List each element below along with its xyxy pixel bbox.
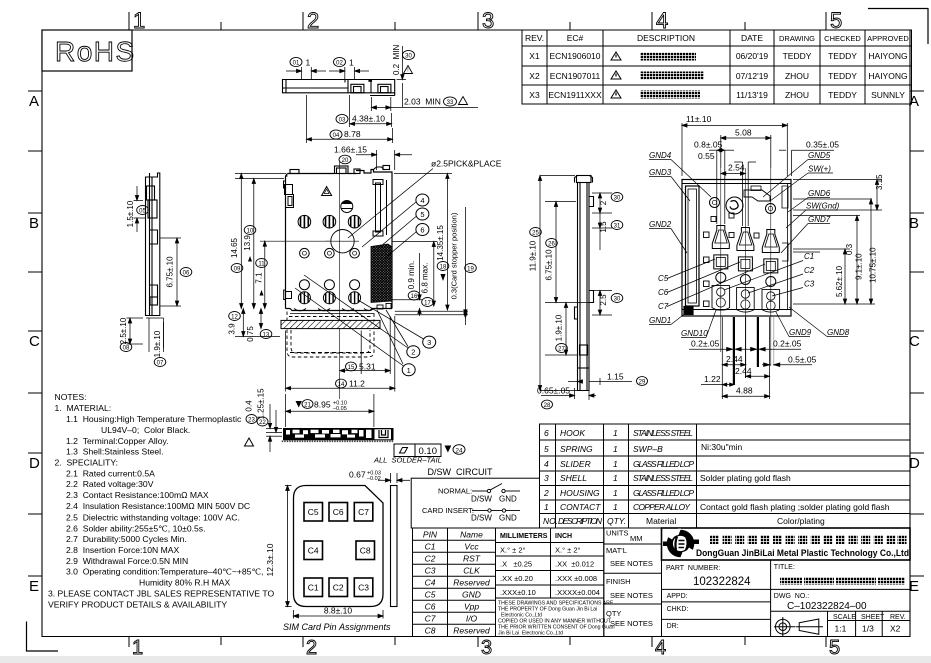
svg-text:13.9: 13.9 xyxy=(243,235,252,251)
svg-text:TEDDY: TEDDY xyxy=(783,51,812,61)
svg-text:3. PLEASE CONTACT JBL SALES RE: 3. PLEASE CONTACT JBL SALES REPRESENTATI… xyxy=(48,589,275,599)
svg-text:B: B xyxy=(29,215,39,232)
svg-text:RoHS: RoHS xyxy=(55,36,136,67)
svg-text:DR:: DR: xyxy=(667,623,679,630)
svg-text:C3: C3 xyxy=(358,583,369,593)
svg-text:E: E xyxy=(909,578,919,595)
svg-text:Reserved: Reserved xyxy=(453,578,490,588)
svg-text:TITLE:: TITLE: xyxy=(774,564,795,571)
svg-text:Vcc: Vcc xyxy=(464,542,479,552)
svg-text:ALL SOLDER–TAIL: ALL SOLDER–TAIL xyxy=(373,456,442,465)
parts list table xyxy=(540,424,911,528)
PIN assignment table xyxy=(413,528,496,637)
svg-text:EC#: EC# xyxy=(567,33,584,43)
svg-text:C1: C1 xyxy=(425,542,436,552)
svg-text:Material: Material xyxy=(646,516,676,526)
svg-text:Vpp: Vpp xyxy=(464,602,479,612)
zone letters right xyxy=(909,93,920,595)
its dims: left chain xyxy=(538,176,590,391)
svg-text:4: 4 xyxy=(420,196,424,205)
svg-text:2: 2 xyxy=(599,200,608,205)
svg-text:11.9±.10: 11.9±.10 xyxy=(529,240,538,271)
svg-text:DATE: DATE xyxy=(741,33,763,43)
svg-text:29: 29 xyxy=(639,380,646,386)
svg-text:C4: C4 xyxy=(425,578,436,588)
dim 0.2 MIN vertical xyxy=(397,46,407,107)
svg-text:02: 02 xyxy=(336,61,343,67)
svg-text:30: 30 xyxy=(405,54,412,60)
svg-text:X2: X2 xyxy=(529,71,540,81)
svg-text:SEE NOTES: SEE NOTES xyxy=(610,559,653,568)
contact row 2 (open circles) xyxy=(300,248,360,258)
SIM dims xyxy=(285,486,383,619)
svg-text:33: 33 xyxy=(447,100,454,106)
svg-text:GND6: GND6 xyxy=(808,189,831,198)
svg-text:5: 5 xyxy=(830,8,842,33)
svg-text:1: 1 xyxy=(407,366,411,375)
svg-text:.XXXX±0.004: .XXXX±0.004 xyxy=(555,588,600,597)
dim (03) 4.38 xyxy=(350,95,392,127)
svg-text:2.5±.10: 2.5±.10 xyxy=(119,317,128,344)
svg-text:GLASS FILLED LCP: GLASS FILLED LCP xyxy=(633,459,694,469)
svg-text:GND1: GND1 xyxy=(649,316,671,325)
svg-text:19: 19 xyxy=(467,267,474,273)
svg-text:14.65: 14.65 xyxy=(230,237,239,258)
top dims of bottom view xyxy=(682,123,834,226)
svg-text:GND: GND xyxy=(499,514,517,523)
svg-text:Solder plating gold flash: Solder plating gold flash xyxy=(700,473,791,483)
svg-text:5.31: 5.31 xyxy=(359,361,376,371)
svg-text:TEDDY: TEDDY xyxy=(828,51,857,61)
svg-text:0.65±.05: 0.65±.05 xyxy=(537,386,570,396)
svg-text:SW(+): SW(+) xyxy=(808,165,831,174)
svg-text:2.44: 2.44 xyxy=(726,354,743,364)
svg-text:QTY: QTY xyxy=(606,609,621,618)
svg-text:10.75±.10: 10.75±.10 xyxy=(869,247,878,283)
svg-text:1: 1 xyxy=(613,428,618,438)
svg-text:23: 23 xyxy=(248,418,255,424)
svg-text:25: 25 xyxy=(532,231,539,237)
svg-text:HAIYONG: HAIYONG xyxy=(868,71,907,81)
svg-text:1. MATERIAL:: 1. MATERIAL: xyxy=(55,403,112,413)
svg-text:0.2±.05: 0.2±.05 xyxy=(773,339,802,349)
svg-text:ECN1906010: ECN1906010 xyxy=(549,51,600,61)
svg-text:C3: C3 xyxy=(425,566,436,576)
svg-text:21: 21 xyxy=(304,403,311,409)
svg-text:PIN: PIN xyxy=(423,530,438,540)
svg-text:STAINLESS STEEL: STAINLESS STEEL xyxy=(633,428,693,438)
right slot xyxy=(373,180,387,237)
warning triangle in view xyxy=(322,187,332,196)
scattered small squares xyxy=(704,213,760,307)
chinese company name blocks xyxy=(710,535,907,544)
svg-text:5: 5 xyxy=(829,637,840,659)
svg-text:APPROVED: APPROVED xyxy=(867,34,909,43)
svg-text:0.67: 0.67 xyxy=(349,470,366,480)
balloons 1 2 3 with leaders xyxy=(402,364,415,376)
left labels xyxy=(649,151,708,338)
svg-text:PART NUMBER:: PART NUMBER: xyxy=(666,565,720,572)
svg-text:CHKD:: CHKD: xyxy=(667,606,689,613)
svg-text:1.25±.15: 1.25±.15 xyxy=(257,388,266,420)
svg-text:9.1±.10: 9.1±.10 xyxy=(855,253,864,280)
svg-text:CARD INSERT:: CARD INSERT: xyxy=(422,506,474,515)
svg-text:11/13'19: 11/13'19 xyxy=(736,90,768,100)
svg-text:–0.05: –0.05 xyxy=(333,406,347,412)
svg-text:Humidity 80% R.H MAX: Humidity 80% R.H MAX xyxy=(139,578,230,588)
svg-text:DWG NO.:: DWG NO.: xyxy=(774,593,809,600)
svg-text:1.66±.15: 1.66±.15 xyxy=(334,145,367,155)
zone ticks bottom xyxy=(129,637,826,648)
svg-text:CHECKED: CHECKED xyxy=(824,34,861,43)
svg-text:1.15: 1.15 xyxy=(607,372,624,382)
svg-text:0.3: 0.3 xyxy=(845,243,854,255)
svg-text:2.6 Solder ability:255±5℃, 10: 2.6 Solder ability:255±5℃, 10±0.5s. xyxy=(66,523,205,533)
svg-text:0.2±.05: 0.2±.05 xyxy=(691,339,720,349)
svg-text:SUNNLY: SUNNLY xyxy=(871,90,905,100)
svg-text:3: 3 xyxy=(544,473,549,483)
pick place circle xyxy=(326,230,359,253)
svg-text:A: A xyxy=(909,93,919,110)
svg-text:16: 16 xyxy=(411,294,418,300)
svg-text:Reserved: Reserved xyxy=(453,626,490,636)
svg-text:0.55: 0.55 xyxy=(698,151,715,161)
svg-text:.X ±0.25: .X ±0.25 xyxy=(500,560,532,569)
svg-text:2: 2 xyxy=(306,637,317,659)
svg-text:GND8: GND8 xyxy=(827,328,850,337)
bottom solder tails xyxy=(290,309,374,314)
zone numbers bottom xyxy=(132,637,840,659)
units/matl/finish/qty column xyxy=(604,528,662,637)
svg-text:27: 27 xyxy=(558,347,565,353)
svg-text:2.1 Rated current:0.5A: 2.1 Rated current:0.5A xyxy=(66,468,155,478)
svg-text:D: D xyxy=(909,455,920,472)
svg-text:GND3: GND3 xyxy=(649,168,672,177)
left dim chain of top view xyxy=(235,174,330,337)
svg-text:C6: C6 xyxy=(333,507,344,517)
contact rows 3/4 xyxy=(298,280,360,304)
single contact top middle xyxy=(341,201,353,213)
svg-text:3: 3 xyxy=(481,637,492,659)
switch symbol CARD INSERT closed xyxy=(472,509,520,512)
svg-text:5.62±.10: 5.62±.10 xyxy=(835,265,844,297)
svg-text:CLK: CLK xyxy=(463,566,480,576)
svg-text:Jin Bi Lai Electronic Co.,Ltd: Jin Bi Lai Electronic Co.,Ltd xyxy=(498,631,563,637)
svg-text:GLASS FILLED LCP: GLASS FILLED LCP xyxy=(633,488,694,498)
svg-text:–0.02: –0.02 xyxy=(367,476,381,482)
svg-text:TEDDY: TEDDY xyxy=(828,90,857,100)
svg-text:31: 31 xyxy=(614,224,621,230)
SIM card outline xyxy=(294,486,384,607)
company logo xyxy=(663,529,699,559)
svg-text:INCH: INCH xyxy=(555,533,572,540)
svg-text:07: 07 xyxy=(157,361,164,367)
svg-text:07/12'19: 07/12'19 xyxy=(736,71,769,81)
zone letters left xyxy=(29,93,40,595)
svg-text:1/3: 1/3 xyxy=(862,624,874,634)
svg-text:2.5 Dielectric withstanding v: 2.5 Dielectric withstanding voltage: 100… xyxy=(66,512,240,522)
svg-text:5: 5 xyxy=(420,210,424,219)
svg-text:22: 22 xyxy=(259,420,266,426)
svg-text:ZHOU: ZHOU xyxy=(785,71,809,81)
svg-text:C2: C2 xyxy=(333,583,344,593)
svg-text:11±.10: 11±.10 xyxy=(686,114,712,124)
RoHS logo box xyxy=(42,30,136,71)
top pick tab xyxy=(290,166,390,174)
svg-text:3.15: 3.15 xyxy=(875,174,884,190)
svg-text:DongGuan JinBiLai Metal Plasti: DongGuan JinBiLai Metal Plastic Technolo… xyxy=(696,548,909,559)
svg-text:18: 18 xyxy=(440,265,447,271)
svg-text:13: 13 xyxy=(263,333,270,339)
flatness callout xyxy=(394,444,441,457)
zone ticks top xyxy=(129,12,826,30)
contact row 1 (hatched circles) xyxy=(298,215,361,228)
svg-text:1.1 Housing:High Temperature: 1.1 Housing:High Temperature Thermoplast… xyxy=(66,414,242,424)
svg-text:ECN1907011: ECN1907011 xyxy=(550,71,601,81)
svg-text:.XX ±0.20: .XX ±0.20 xyxy=(500,574,533,583)
svg-text:1: 1 xyxy=(613,459,618,469)
svg-text:TEDDY: TEDDY xyxy=(828,71,857,81)
dim (02) 1 xyxy=(329,67,369,79)
svg-text:30: 30 xyxy=(614,196,621,202)
svg-text:2.2 Rated voltage:30V: 2.2 Rated voltage:30V xyxy=(66,479,154,489)
bottom dims xyxy=(689,317,812,399)
svg-text:ZHOU: ZHOU xyxy=(785,90,809,100)
svg-text:CONTACT: CONTACT xyxy=(560,502,601,512)
svg-text:SLIDER: SLIDER xyxy=(560,459,591,469)
svg-text:C–102322824–00: C–102322824–00 xyxy=(787,601,867,612)
svg-text:NORMAL:: NORMAL: xyxy=(438,487,472,496)
bottom dims 5.31 / 11.2 xyxy=(286,316,395,392)
svg-text:2: 2 xyxy=(411,348,415,357)
svg-text:5: 5 xyxy=(544,444,549,454)
svg-text:C5: C5 xyxy=(308,507,319,517)
small bottom-right features xyxy=(377,304,391,310)
svg-text:A: A xyxy=(29,93,39,110)
bottom view outline xyxy=(682,180,791,317)
svg-text:Contact gold flash plating ;so: Contact gold flash plating ;solder plati… xyxy=(700,502,890,512)
svg-text:DRAWING: DRAWING xyxy=(779,34,815,43)
svg-text:24: 24 xyxy=(455,447,463,454)
svg-text:RST: RST xyxy=(463,554,481,564)
hatched contact zone xyxy=(371,244,392,303)
svg-text:.XXX±0.10: .XXX±0.10 xyxy=(500,588,536,597)
svg-text:UNITS: UNITS xyxy=(606,529,629,538)
svg-text:1: 1 xyxy=(613,473,618,483)
left edge features xyxy=(284,181,294,300)
switch symbol NORMAL open xyxy=(472,484,520,493)
svg-text:3: 3 xyxy=(482,8,494,33)
svg-text:MM: MM xyxy=(630,534,643,543)
svg-text:2.7 Durability:5000 Cycles Mi: 2.7 Durability:5000 Cycles Min. xyxy=(66,534,187,544)
svg-text:4.38±.10: 4.38±.10 xyxy=(352,114,385,124)
svg-text:0.3(Card stopper position): 0.3(Card stopper position) xyxy=(450,212,459,299)
svg-text:2.3 Contact Resistance:100mΩ: 2.3 Contact Resistance:100mΩ MAX xyxy=(66,490,209,500)
svg-text:14.35±.15: 14.35±.15 xyxy=(436,225,445,261)
svg-text:STAINLESS STEEL: STAINLESS STEEL xyxy=(633,473,693,483)
svg-text:GND2: GND2 xyxy=(649,220,672,229)
svg-text:C7: C7 xyxy=(358,507,369,517)
column centerlines xyxy=(721,168,771,378)
svg-text:D/SW: D/SW xyxy=(471,495,492,504)
svg-text:1.5: 1.5 xyxy=(599,221,608,233)
svg-text:12: 12 xyxy=(231,315,238,321)
svg-text:01: 01 xyxy=(293,61,300,67)
svg-text:FINISH: FINISH xyxy=(606,577,631,586)
svg-text:SEE NOTES: SEE NOTES xyxy=(610,619,653,628)
svg-text:UL94V–0; Color Black.: UL94V–0; Color Black. xyxy=(101,425,190,435)
svg-text:2.9 Withdrawal Force:0.5N MIN: 2.9 Withdrawal Force:0.5N MIN xyxy=(66,556,188,566)
svg-text:2.44: 2.44 xyxy=(735,366,752,376)
svg-text:1.2 Terminal:Copper Alloy.: 1.2 Terminal:Copper Alloy. xyxy=(66,436,169,446)
svg-text:0.75: 0.75 xyxy=(246,326,255,342)
svg-text:0.8±.05: 0.8±.05 xyxy=(694,140,723,150)
svg-text:GND4: GND4 xyxy=(649,151,672,160)
title block xyxy=(662,528,911,637)
top features xyxy=(710,186,789,261)
svg-text:SPRING: SPRING xyxy=(560,444,593,454)
svg-text:C7: C7 xyxy=(425,614,436,624)
svg-text:6.75±.10: 6.75±.10 xyxy=(545,249,554,281)
svg-text:4: 4 xyxy=(656,8,668,33)
left view dims xyxy=(127,186,182,352)
svg-text:0.9 min.: 0.9 min. xyxy=(407,261,416,289)
svg-text:X.° ± 2°: X.° ± 2° xyxy=(555,546,581,555)
zone numbers top xyxy=(133,8,842,33)
svg-text:D/SW CIRCUIT: D/SW CIRCUIT xyxy=(428,467,493,477)
svg-text:03: 03 xyxy=(339,118,346,124)
svg-text:C3: C3 xyxy=(804,280,815,289)
svg-text:09: 09 xyxy=(234,267,241,273)
title blurred text xyxy=(780,577,905,585)
svg-text:0.35±.05: 0.35±.05 xyxy=(806,140,839,150)
svg-text:12.3±.10: 12.3±.10 xyxy=(265,543,275,576)
svg-text:08: 08 xyxy=(123,346,130,352)
0.67 card dim + thin bar xyxy=(391,486,398,607)
svg-text:C2: C2 xyxy=(425,554,436,564)
svg-text:1.22: 1.22 xyxy=(704,374,721,384)
svg-text:3.0 Operating condition:Tempe: 3.0 Operating condition:Temperature–40℃~… xyxy=(66,567,264,577)
svg-text:1.9±.10: 1.9±.10 xyxy=(153,330,162,357)
svg-text:2.4 Insulation Resistance:100: 2.4 Insulation Resistance:100MΩ MIN 500V… xyxy=(66,501,250,511)
svg-text:05: 05 xyxy=(139,209,146,215)
svg-text:2: 2 xyxy=(543,488,549,498)
svg-text:C1: C1 xyxy=(308,583,319,593)
contact column C5/GND10 xyxy=(712,226,730,311)
svg-text:GND9: GND9 xyxy=(789,328,812,337)
svg-text:Name: Name xyxy=(460,530,483,540)
svg-text:C8: C8 xyxy=(425,626,436,636)
svg-text:8.8±.10: 8.8±.10 xyxy=(324,606,353,616)
svg-text:C4: C4 xyxy=(308,546,319,556)
svg-text:SEE NOTES: SEE NOTES xyxy=(610,591,653,600)
tolerance table xyxy=(496,528,604,637)
svg-text:1.3 Shell:Stainless Steel.: 1.3 Shell:Stainless Steel. xyxy=(66,447,163,457)
svg-text:2.5: 2.5 xyxy=(599,294,608,306)
contact column C6 xyxy=(737,228,755,313)
svg-text:7.1: 7.1 xyxy=(255,272,264,284)
svg-text:6.75±.10: 6.75±.10 xyxy=(166,256,175,288)
svg-text:1: 1 xyxy=(349,58,354,68)
svg-text:20: 20 xyxy=(342,158,349,164)
dim (04) 8.78 xyxy=(307,95,393,143)
svg-text:DESCRIPTION: DESCRIPTION xyxy=(637,33,695,43)
svg-text:2: 2 xyxy=(307,8,319,33)
svg-text:GND5: GND5 xyxy=(808,151,831,160)
svg-text:6: 6 xyxy=(420,226,424,235)
svg-text:4: 4 xyxy=(655,637,666,659)
contact columns xyxy=(712,226,780,313)
svg-text:QTY.: QTY. xyxy=(607,516,626,526)
svg-text:2.8 Insertion Force:10N MAX: 2.8 Insertion Force:10N MAX xyxy=(66,545,179,555)
right chain: 2 / 1.5 / 2.5 xyxy=(592,193,612,315)
card dashed outline + hatch bar xyxy=(287,312,374,358)
svg-text:APPD:: APPD: xyxy=(667,593,688,600)
svg-text:2. SPECIALITY:: 2. SPECIALITY: xyxy=(55,458,119,468)
svg-text:1:1: 1:1 xyxy=(835,624,847,634)
svg-text:8.95: 8.95 xyxy=(314,400,331,410)
svg-text:VERIFY PRODUCT DETAILS & AVAIL: VERIFY PRODUCT DETAILS & AVAILABILITY xyxy=(48,600,227,610)
svg-text:I/O: I/O xyxy=(466,614,478,624)
svg-text:SHELL: SHELL xyxy=(560,473,587,483)
projection symbol xyxy=(774,617,823,636)
svg-text:C: C xyxy=(29,333,40,350)
dim 2.03 MIN xyxy=(372,97,479,111)
svg-text:8.78: 8.78 xyxy=(344,129,361,139)
svg-text:ø2.5PICK&PLACE: ø2.5PICK&PLACE xyxy=(431,159,502,169)
svg-text:0.4: 0.4 xyxy=(245,400,254,412)
svg-text:HOOK: HOOK xyxy=(560,428,585,438)
svg-text:X1: X1 xyxy=(529,51,540,61)
svg-text:3.9: 3.9 xyxy=(228,323,237,335)
svg-text:5.08: 5.08 xyxy=(735,128,752,138)
balloons 4 5 6 with leaders xyxy=(416,194,429,206)
small dark tab on top side view xyxy=(368,79,372,82)
svg-text:GND: GND xyxy=(462,590,481,600)
svg-text:1: 1 xyxy=(306,58,311,68)
svg-text:D/SW: D/SW xyxy=(471,514,492,523)
svg-text:REV.: REV. xyxy=(890,614,906,621)
svg-text:Ni:30u"min: Ni:30u"min xyxy=(701,442,743,452)
8.95 dim xyxy=(286,394,374,427)
svg-text:1: 1 xyxy=(133,8,145,33)
svg-text:28: 28 xyxy=(544,403,551,409)
strip left dims xyxy=(266,404,282,452)
svg-text:C8: C8 xyxy=(360,546,371,556)
svg-text:0.5±.05: 0.5±.05 xyxy=(788,355,817,365)
right dim chain of top view xyxy=(392,174,468,326)
svg-text:REV.: REV. xyxy=(525,33,544,43)
svg-text:4.88: 4.88 xyxy=(736,386,753,396)
svg-text:11.2: 11.2 xyxy=(349,379,365,389)
svg-text:06/20'19: 06/20'19 xyxy=(736,51,769,61)
svg-text:3: 3 xyxy=(427,338,431,347)
svg-text:1.5±.10: 1.5±.10 xyxy=(126,200,135,227)
NOTES text block xyxy=(48,392,275,610)
svg-text:X3: X3 xyxy=(529,90,540,100)
svg-text:26: 26 xyxy=(548,242,555,248)
svg-text:HOUSING: HOUSING xyxy=(560,488,600,498)
rev table warning triangles + cjk desc blobs xyxy=(611,52,704,99)
svg-text:Color/plating: Color/plating xyxy=(777,516,825,526)
svg-text:D: D xyxy=(29,455,40,472)
svg-text:06: 06 xyxy=(183,271,190,277)
svg-text:GND7: GND7 xyxy=(808,215,831,224)
svg-text:SWP–B: SWP–B xyxy=(633,444,663,454)
svg-text:SCALE: SCALE xyxy=(833,614,856,621)
svg-text:!: ! xyxy=(407,68,408,74)
bottom dims 1.15 / 0.65 xyxy=(541,372,632,400)
